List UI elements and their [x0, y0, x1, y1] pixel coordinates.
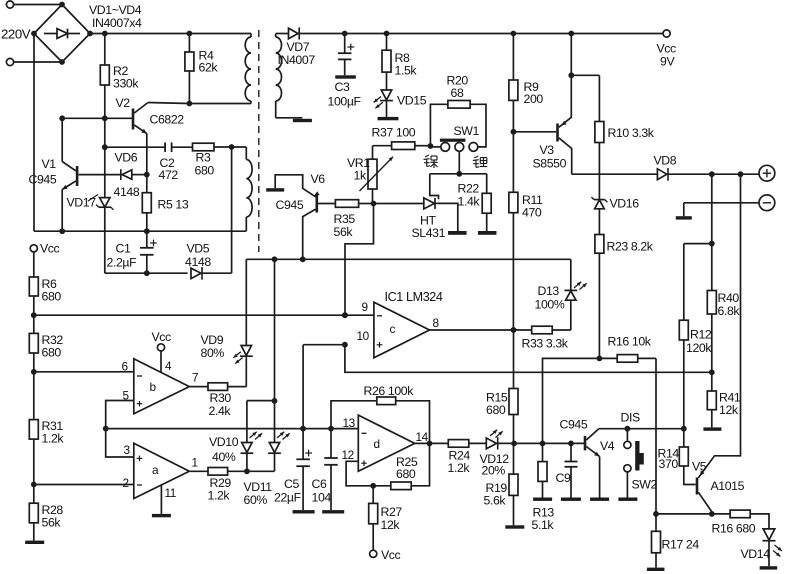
label R28	[42, 503, 64, 517]
ground (V4 emitter)	[590, 498, 609, 501]
label VD1~VD4	[89, 3, 142, 17]
label C945 (V4)	[560, 418, 588, 432]
resistor R24	[448, 440, 486, 448]
label R40	[718, 291, 740, 305]
label 120k	[686, 341, 712, 355]
label 472	[159, 168, 179, 182]
node: R33 junction	[511, 327, 517, 333]
wire: R3 to feedback winding	[214, 144, 246, 150]
resistor R4	[185, 34, 194, 104]
label R22	[458, 182, 480, 196]
svg-text:7: 7	[192, 371, 198, 385]
label C6	[312, 477, 327, 491]
resistor R6	[29, 252, 38, 315]
label C945 (V6)	[276, 198, 304, 212]
svg-text:6: 6	[122, 360, 129, 374]
svg-text:VD8: VD8	[654, 154, 677, 168]
label IN4007	[278, 53, 316, 67]
label 80%	[201, 346, 225, 360]
wire: pin 2 net	[34, 484, 134, 486]
svg-text:4: 4	[165, 359, 172, 373]
label C9	[556, 471, 571, 485]
wire: pin 6 net	[34, 371, 134, 373]
label 1.4k	[458, 195, 481, 209]
label R27	[381, 505, 403, 519]
label 5.1k	[532, 518, 555, 532]
svg-text:VD5: VD5	[187, 242, 210, 256]
wire: pin 8 out	[430, 327, 532, 333]
node: pin9 ladder junction	[31, 312, 37, 318]
transformer core (dashed)	[258, 30, 260, 252]
svg-text:200: 200	[524, 92, 544, 106]
minus (b)	[137, 375, 142, 377]
label 1.2k (R24)	[448, 461, 471, 475]
label VD17	[67, 195, 99, 210]
label DIS	[621, 411, 640, 425]
svg-text:R30: R30	[210, 391, 232, 405]
svg-text:9: 9	[362, 300, 368, 314]
pin 1	[192, 456, 198, 470]
label V6	[311, 172, 326, 186]
wire: pin 12 link	[346, 461, 376, 488]
svg-text:d: d	[374, 437, 380, 451]
wire: R33 to D13	[552, 300, 571, 330]
svg-text:R40: R40	[718, 291, 740, 305]
ground (C6)	[322, 510, 344, 513]
label 60%	[244, 493, 268, 507]
ground (V6 emitter)	[266, 188, 284, 191]
label 56k (R35)	[334, 225, 354, 239]
node: R40/R41 junction	[709, 369, 715, 375]
svg-text:c: c	[390, 322, 396, 336]
svg-text:Vcc: Vcc	[381, 548, 401, 562]
label 9V	[660, 55, 675, 69]
resistor R8	[382, 34, 391, 91]
resistor R16 (10k)	[599, 355, 656, 363]
bridge rectifier VD1~VD4	[31, 2, 93, 65]
label 1k	[354, 169, 367, 183]
LED D13	[564, 259, 586, 300]
resistor R35	[318, 200, 376, 208]
svg-text:680: 680	[396, 467, 416, 481]
op-amp a	[134, 443, 190, 498]
label 12k (R41)	[719, 403, 739, 417]
label 104	[312, 491, 332, 505]
label 680 (R6)	[42, 290, 62, 304]
svg-text:2.2µF: 2.2µF	[107, 256, 138, 270]
svg-text:2: 2	[123, 476, 129, 490]
svg-text:IC1 LM324: IC1 LM324	[385, 290, 443, 304]
transformer secondary winding	[276, 34, 282, 118]
pin 8	[433, 316, 440, 330]
svg-text:R23 8.2k: R23 8.2k	[607, 240, 654, 254]
pin 5	[123, 389, 130, 403]
label IN4007x4	[92, 16, 142, 30]
LED VD11	[247, 259, 290, 471]
label 100uF	[328, 95, 362, 109]
label VD12	[480, 452, 510, 466]
label S8550	[533, 157, 567, 171]
ground (secondary)	[293, 119, 312, 122]
svg-text:C945: C945	[560, 418, 588, 432]
svg-text:4148: 4148	[114, 185, 140, 199]
node: V3 base junction	[511, 129, 517, 135]
label SW2	[632, 478, 658, 492]
wire: pin 7 out	[189, 386, 208, 388]
label SW1	[454, 124, 480, 138]
plus (c)	[377, 342, 383, 348]
label 56k (R28)	[42, 516, 62, 530]
wire: VD8 to + terminal	[668, 171, 759, 177]
wire: VD5 anode	[105, 270, 188, 276]
label R16 10k	[608, 335, 652, 349]
capacitor C1	[140, 231, 157, 273]
resistor R28	[29, 485, 38, 541]
label 220V	[1, 27, 31, 42]
wire: pin 5 link	[106, 401, 134, 429]
label R3	[196, 151, 211, 165]
transistor V5	[697, 174, 741, 514]
svg-text:8: 8	[433, 316, 440, 330]
diode VD6	[79, 169, 150, 180]
diode VD7	[289, 27, 300, 39]
resistor R10	[595, 75, 604, 142]
svg-text:680: 680	[42, 290, 62, 304]
capacitor C9	[565, 443, 578, 497]
plus (b)	[137, 401, 143, 407]
label V3	[540, 143, 555, 157]
svg-text:C6822: C6822	[150, 113, 185, 127]
svg-text:370: 370	[659, 457, 679, 471]
svg-text:680: 680	[486, 403, 506, 417]
svg-text:C1: C1	[116, 242, 131, 256]
label 62k	[199, 61, 219, 75]
label R32	[42, 333, 64, 347]
wire: DIS net	[599, 426, 687, 432]
svg-text:Vcc: Vcc	[657, 42, 677, 56]
svg-text:V3: V3	[540, 143, 555, 157]
minus (d)	[362, 432, 367, 434]
label R26 100k	[364, 384, 415, 398]
label R11	[522, 193, 543, 207]
wire: pin 10 to C5	[303, 345, 345, 429]
label 1.2k (R31)	[42, 432, 65, 446]
node: VD11 top	[272, 398, 278, 404]
svg-text:R10 3.3k: R10 3.3k	[608, 126, 655, 140]
label V1	[42, 157, 57, 171]
wire: R2 bottom / V2 base	[59, 115, 133, 121]
svg-text:VD9: VD9	[201, 333, 224, 347]
wire: V3 base	[513, 131, 556, 133]
svg-text:12: 12	[342, 448, 354, 462]
terminal - output	[759, 195, 775, 211]
label 470	[522, 206, 542, 220]
svg-text:C6: C6	[312, 477, 327, 491]
svg-text:11: 11	[165, 486, 176, 500]
wire: R29 to VD10 node	[228, 468, 250, 474]
svg-text:R26 100k: R26 100k	[364, 384, 415, 398]
ground (ladder)	[25, 541, 44, 544]
svg-text:2.4k: 2.4k	[209, 404, 232, 418]
op-amp IC1 c	[374, 302, 430, 358]
svg-text:Vcc: Vcc	[152, 330, 172, 344]
svg-text:5.1k: 5.1k	[532, 518, 555, 532]
svg-text:56k: 56k	[42, 516, 62, 530]
label 5.6k	[484, 494, 507, 508]
svg-text:S8550: S8550	[533, 157, 567, 171]
label R25	[396, 455, 418, 469]
resistor R5	[142, 175, 151, 232]
pin 9	[362, 300, 368, 314]
svg-text:R33 3.3k: R33 3.3k	[522, 337, 569, 351]
svg-text:20%: 20%	[482, 464, 506, 478]
label VD14	[741, 547, 771, 561]
wire: C2 branch	[105, 146, 165, 148]
svg-text:680: 680	[195, 164, 215, 178]
resistor R19	[509, 443, 518, 525]
pin 10	[357, 329, 370, 343]
label VD7	[287, 40, 310, 54]
svg-text:VD6: VD6	[115, 151, 138, 165]
svg-text:12k: 12k	[381, 518, 401, 532]
wire: Vcc top rail	[299, 31, 663, 37]
label R5 13	[158, 198, 189, 212]
label 6.8k	[718, 304, 741, 318]
wire: SW1 common	[430, 152, 487, 177]
label 370	[659, 457, 679, 471]
svg-text:D13: D13	[538, 284, 560, 298]
svg-text:IN4007x4: IN4007x4	[92, 16, 142, 30]
resistor R33	[532, 326, 553, 334]
label lithium (Chinese)	[473, 156, 488, 168]
svg-text:120k: 120k	[686, 341, 712, 355]
terminal Vcc (ladder)	[30, 242, 59, 256]
svg-text:SW2: SW2	[632, 478, 658, 492]
svg-text:80%: 80%	[201, 346, 225, 360]
pin 11	[161, 485, 176, 514]
zener VD16	[591, 143, 607, 235]
svg-text:V2: V2	[116, 96, 131, 110]
terminal Vcc (R27)	[370, 548, 401, 562]
svg-text:IN4007: IN4007	[278, 53, 316, 67]
wire: pin 9 net	[34, 312, 374, 318]
svg-text:DIS: DIS	[621, 411, 640, 425]
svg-text:1.5k: 1.5k	[395, 64, 418, 78]
svg-text:10: 10	[357, 329, 370, 343]
svg-text:R35: R35	[334, 212, 356, 226]
pin 7	[192, 371, 198, 385]
transformer primary winding	[245, 34, 251, 104]
wire: + node down	[709, 174, 715, 290]
capacitor C6	[324, 429, 338, 511]
pin 3	[124, 443, 131, 457]
label Vcc (9V)	[657, 42, 677, 56]
label 20%	[482, 464, 506, 478]
svg-text:1.2k: 1.2k	[42, 432, 65, 446]
ground (C9)	[561, 498, 581, 501]
svg-text:VD11: VD11	[244, 480, 273, 494]
wire: pin 14 out	[415, 441, 449, 447]
wire: pin 10 lower net	[342, 342, 712, 372]
label 680 (R25)	[396, 467, 416, 481]
svg-text:56k: 56k	[334, 225, 354, 239]
label R9	[524, 80, 539, 94]
capacitor C3	[338, 34, 354, 76]
label 1.2k (R29)	[208, 489, 231, 503]
resistor R37	[373, 142, 431, 150]
wire: pin5/pin3/pin13 net	[103, 426, 359, 432]
label a	[152, 463, 159, 477]
wire: pin 1 out	[189, 470, 208, 472]
resistor R32	[29, 315, 38, 372]
resistor R16 (680)	[730, 510, 769, 529]
label C1	[116, 242, 131, 256]
ground (VD14)	[760, 566, 778, 569]
label 68	[451, 86, 464, 100]
svg-text:VD14: VD14	[741, 547, 771, 561]
LED VD14	[763, 529, 782, 566]
wire: R26 loop	[331, 397, 430, 443]
diode VD8	[572, 168, 668, 181]
resistor R30	[208, 383, 228, 391]
resistor R9	[509, 34, 518, 132]
wire: - terminal to ground	[684, 203, 759, 216]
svg-text:12k: 12k	[719, 403, 739, 417]
pin 13	[343, 416, 356, 430]
resistor R41	[707, 372, 716, 427]
svg-text:1.4k: 1.4k	[458, 195, 481, 209]
resistor R20	[430, 101, 486, 147]
label A1015	[711, 479, 745, 493]
label 200	[524, 92, 544, 106]
label R10 3.3k	[608, 126, 655, 140]
svg-text:68: 68	[451, 86, 464, 100]
svg-text:9V: 9V	[660, 55, 675, 69]
label VD16	[610, 197, 640, 211]
label R6	[42, 277, 57, 291]
svg-text:60%: 60%	[244, 493, 268, 507]
svg-text:6.8k: 6.8k	[718, 304, 741, 318]
svg-text:1.2k: 1.2k	[448, 461, 471, 475]
label 12k (R27)	[381, 518, 401, 532]
svg-text:VD1~VD4: VD1~VD4	[89, 3, 142, 17]
wire: secondary bottom stub	[276, 117, 303, 119]
terminal: AC input bottom	[6, 58, 62, 65]
label d	[374, 437, 380, 451]
label R24	[449, 449, 471, 463]
LED VD12	[486, 430, 514, 450]
label C6822	[150, 113, 185, 127]
svg-text:SW1: SW1	[454, 124, 480, 138]
shunt reg HT SL431	[374, 198, 458, 231]
svg-text:14: 14	[416, 430, 429, 444]
svg-text:4148: 4148	[185, 255, 211, 269]
ground (- terminal)	[676, 216, 692, 219]
label R31	[42, 419, 64, 433]
node: R23/R16 junction	[597, 356, 603, 362]
label VD10	[209, 435, 239, 449]
label R20	[447, 74, 469, 88]
wire: VD12 to V4 base	[511, 441, 585, 447]
label 4148 (VD5)	[185, 255, 211, 269]
label R8	[395, 51, 410, 65]
node: pin6 ladder junction	[31, 369, 37, 375]
label VD6	[115, 151, 138, 165]
svg-text:VD15: VD15	[397, 94, 427, 108]
svg-text:R3: R3	[196, 151, 211, 165]
ground (TL431)	[448, 231, 467, 235]
label nickel (Chinese)	[424, 155, 438, 168]
label V4	[600, 439, 615, 453]
pin 12	[342, 448, 354, 462]
label V2	[116, 96, 131, 110]
label 330k	[113, 77, 139, 91]
label 22uF	[274, 491, 302, 505]
svg-text:1.2k: 1.2k	[208, 489, 231, 503]
resistor R15	[509, 330, 518, 443]
resistor R13	[538, 443, 547, 497]
diode VD5	[191, 267, 232, 280]
label 680 (R32)	[42, 346, 62, 360]
resistor R14	[679, 429, 695, 485]
resistor R17	[652, 514, 661, 568]
resistor R12	[679, 320, 688, 429]
label 1.5k (R8)	[395, 64, 418, 78]
svg-text:V4: V4	[600, 439, 615, 453]
wire: secondary to VD7	[276, 33, 288, 35]
svg-text:1k: 1k	[354, 169, 367, 183]
LED VD10	[241, 401, 275, 472]
ground (pin 11)	[152, 514, 171, 517]
ground (R22)	[478, 231, 497, 235]
label VD9	[201, 333, 224, 347]
label 100%	[535, 298, 565, 312]
svg-text:470: 470	[522, 206, 542, 220]
label 2.4k	[209, 404, 232, 418]
wire: R12 link	[684, 244, 712, 321]
wire: R30 to VD9	[228, 357, 247, 386]
svg-text:5.6k: 5.6k	[484, 494, 507, 508]
svg-text:VD16: VD16	[610, 197, 640, 211]
svg-text:22µF: 22µF	[274, 491, 302, 505]
label c	[390, 322, 396, 336]
transistor V3	[558, 75, 572, 174]
svg-text:V5: V5	[692, 460, 707, 474]
label R41	[719, 391, 741, 405]
wire: TL431 ref	[430, 174, 439, 199]
label R35	[334, 212, 356, 226]
label R17 24	[662, 538, 700, 552]
label V5	[692, 460, 707, 474]
label 40%	[212, 450, 236, 464]
ground (VD15)	[378, 117, 399, 120]
plus (d)	[361, 460, 367, 466]
potentiometer VR1	[360, 146, 394, 204]
svg-text:V6: V6	[311, 172, 326, 186]
wire: VR1 node staircase	[345, 204, 374, 316]
svg-text:C945: C945	[276, 198, 304, 212]
node: pin2 ladder junction	[31, 482, 37, 488]
label 4148 (VD6)	[114, 185, 140, 199]
ground (R17)	[647, 568, 665, 571]
label VD15	[397, 94, 427, 108]
label R4	[199, 49, 214, 63]
resistor R3	[193, 143, 215, 151]
svg-text:40%: 40%	[212, 450, 236, 464]
minus (a)	[137, 484, 142, 486]
capacitor C2	[165, 142, 192, 152]
svg-text:472: 472	[159, 168, 179, 182]
